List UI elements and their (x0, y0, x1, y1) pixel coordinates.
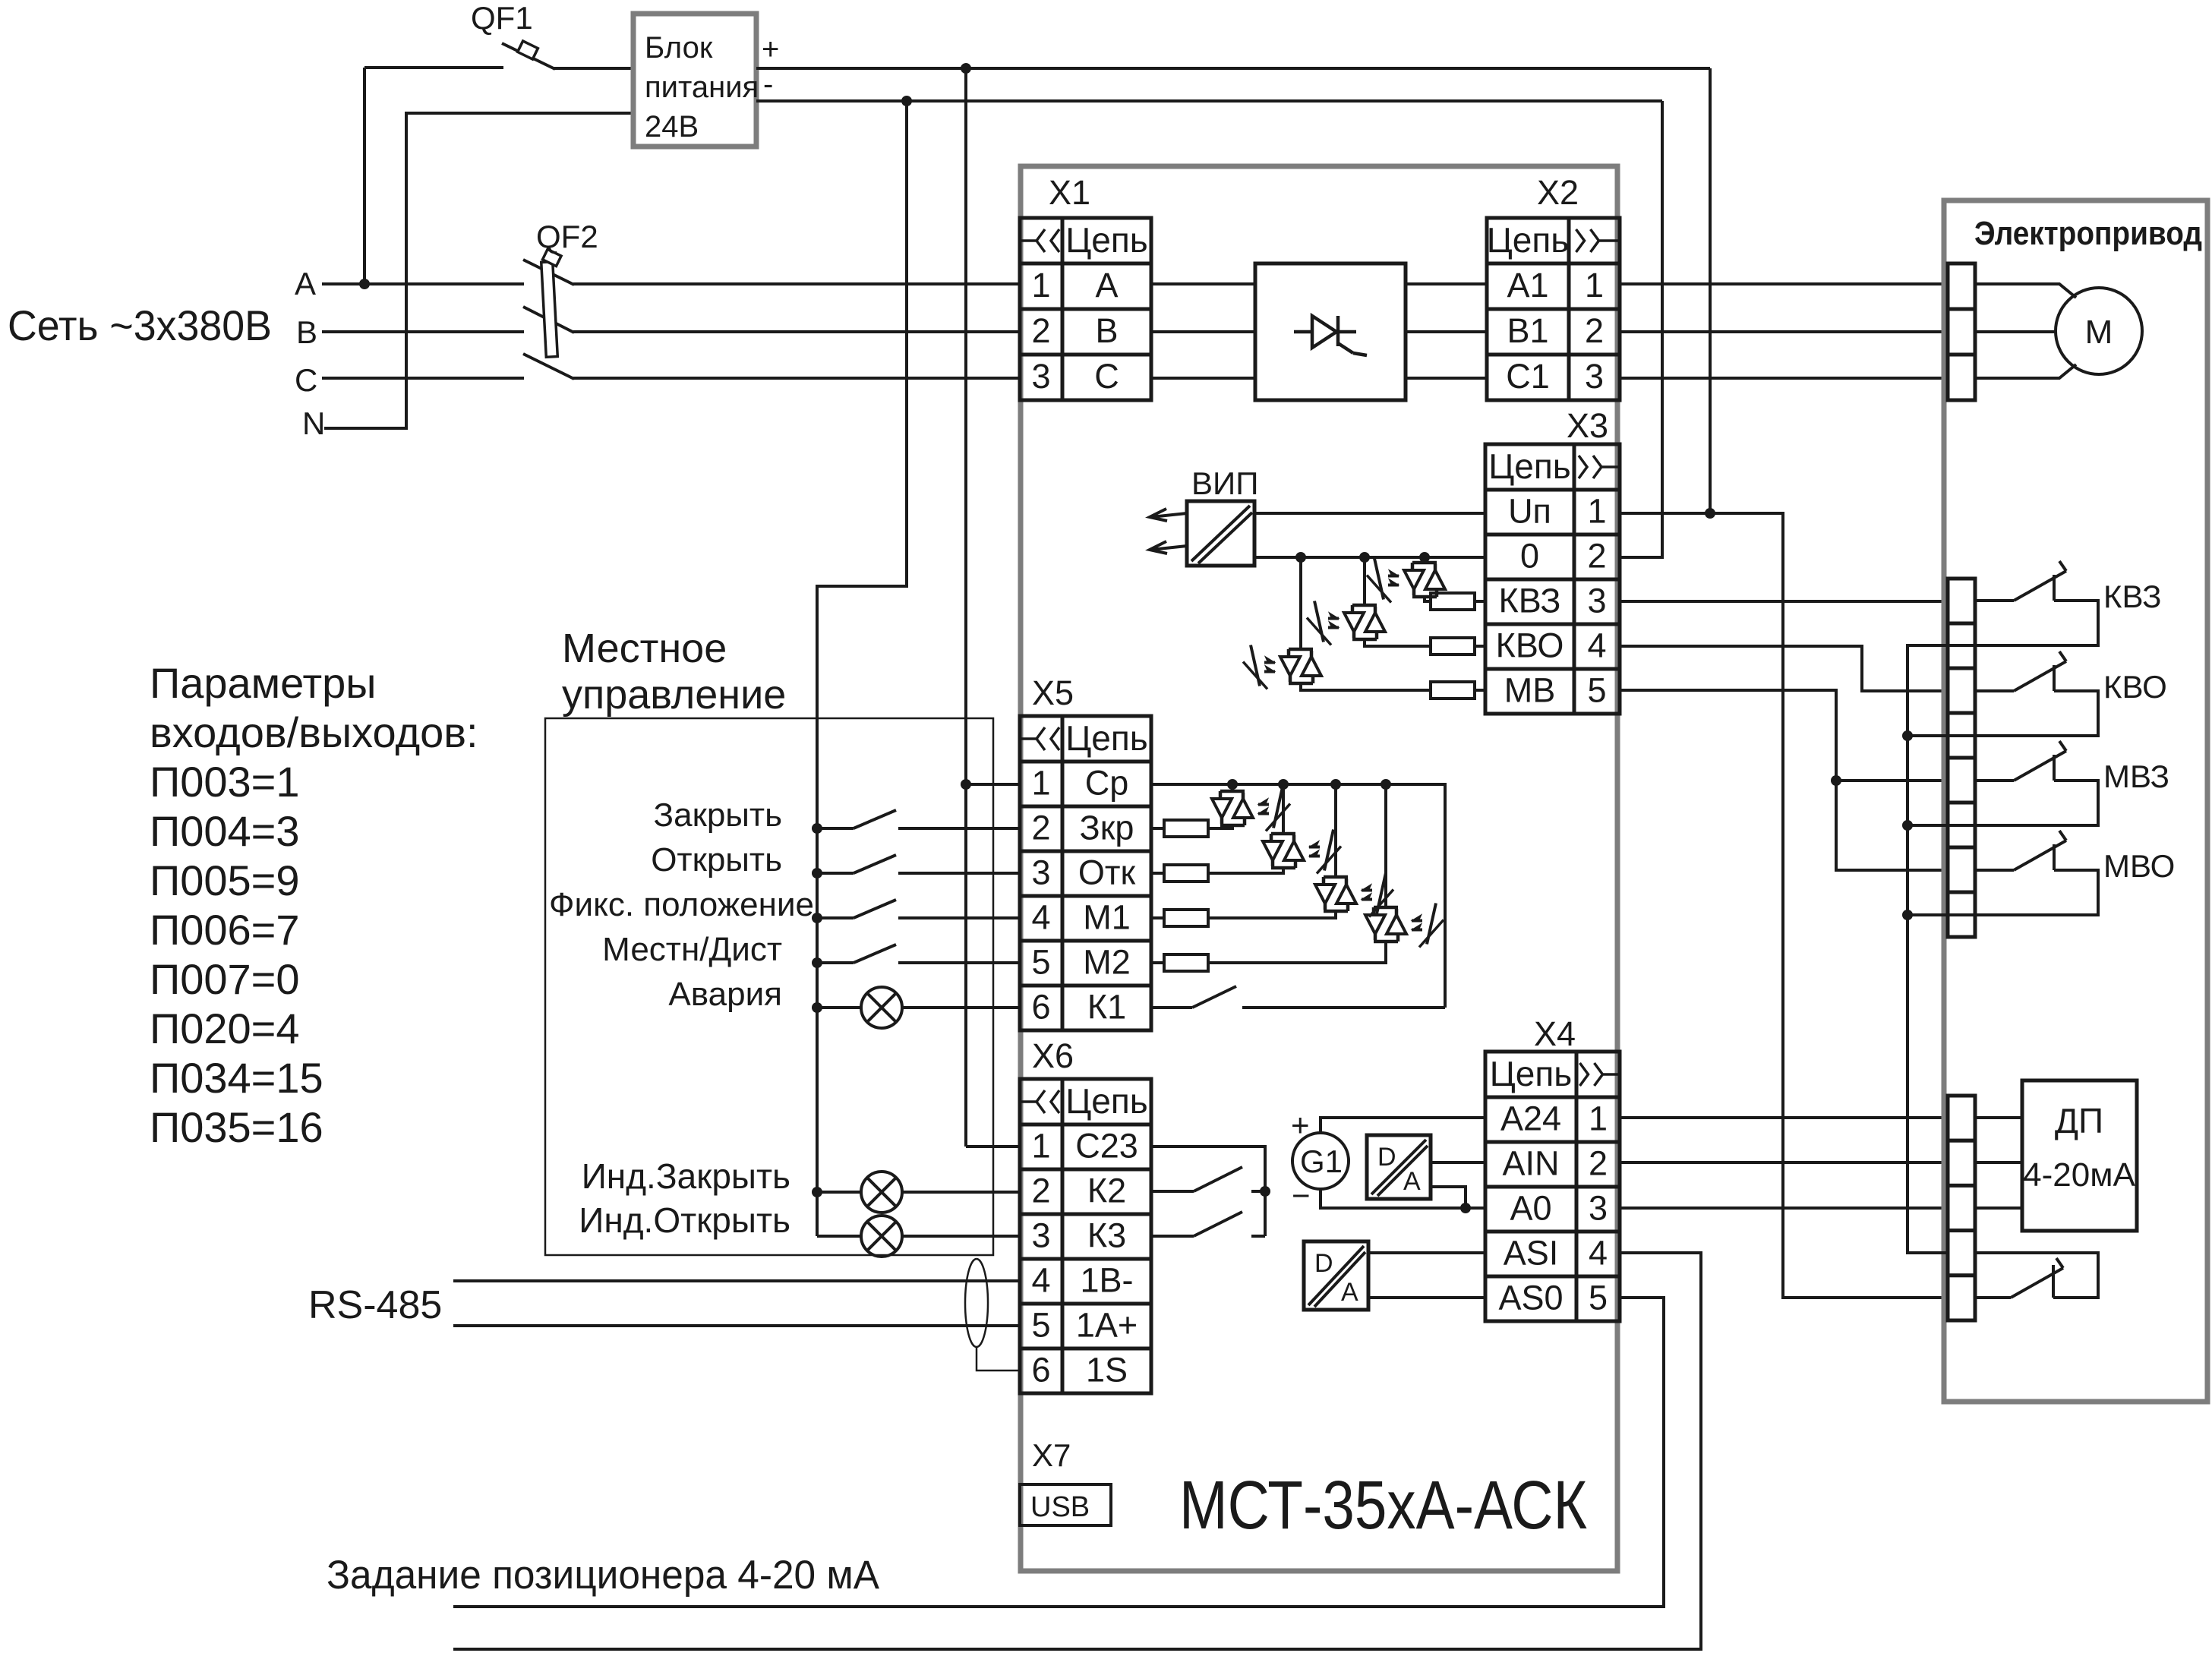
svg-text:24В: 24В (645, 110, 699, 144)
wire AIN to ДП (1620, 1161, 1948, 1164)
junction 0-bus to optotriac МВ (1295, 552, 1306, 563)
terminal ДП3 (1948, 1185, 1975, 1230)
svg-text:Х1: Х1 (1049, 173, 1090, 212)
wire -24 drop to local control bus (817, 101, 907, 1236)
svg-text:D: D (1314, 1249, 1333, 1278)
wire +24 rail drop to Uп (1709, 68, 1712, 513)
wire ДП supply (1975, 1116, 2022, 1119)
svg-text:1: 1 (1031, 1127, 1050, 1166)
svg-text:А0: А0 (1510, 1189, 1551, 1228)
svg-text:4: 4 (1031, 898, 1050, 937)
wire X1.2 to bridge (1151, 330, 1255, 333)
resistor RКВЗ (1431, 593, 1475, 610)
svg-text:Зкр: Зкр (1080, 809, 1134, 847)
wire RКВЗ to X3 (1474, 600, 1485, 603)
terminal B (1948, 309, 1975, 355)
optotriac lead КВЗ (1423, 557, 1426, 564)
breaker QF1 (502, 41, 555, 69)
svg-text:1: 1 (1585, 266, 1604, 304)
svg-text:С1: С1 (1506, 357, 1550, 396)
wire -24 rail (756, 99, 1662, 103)
svg-text:А: А (295, 266, 316, 301)
wire DAC1 to AIN (1431, 1161, 1485, 1164)
wire КВО to actuator (1620, 646, 1948, 691)
wire RКВО to X3 (1474, 645, 1485, 648)
wire bridge to X2.2 (1406, 330, 1487, 333)
svg-text:С23: С23 (1075, 1127, 1138, 1166)
junction on A for QF1 (359, 279, 370, 289)
junction Cp to optotriac x1623 (1227, 779, 1238, 790)
wire RS-485 B to X6.4 (453, 1279, 1020, 1282)
svg-text:Х7: Х7 (1032, 1437, 1071, 1473)
wire +24 rail (756, 67, 1710, 70)
svg-text:Местное: Местное (562, 626, 727, 671)
wire G1 to A24 (1321, 1118, 1485, 1133)
terminal LS6 (1948, 803, 1975, 847)
junction bus Инд.Закрыть (812, 1187, 822, 1197)
svg-text:В: В (296, 314, 317, 350)
svg-text:1: 1 (1031, 764, 1050, 803)
wire ДП return (1975, 1207, 2022, 1210)
svg-text:КВЗ: КВЗ (1499, 582, 1561, 620)
svg-text:N: N (302, 405, 325, 441)
svg-text:питания: питания (645, 71, 759, 104)
handwheel switch blade (1975, 1296, 2011, 1299)
optotriac КВЗ bottom lead (1425, 597, 1431, 601)
svg-text:Х3: Х3 (1567, 406, 1608, 445)
svg-text:Блок: Блок (645, 31, 713, 65)
svg-text:С: С (1094, 357, 1119, 396)
terminal ДП1 (1948, 1096, 1975, 1140)
wire +24 to C23 (966, 1145, 1020, 1148)
wire return МВО (1907, 913, 1975, 916)
svg-text:Цепь: Цепь (1490, 1054, 1573, 1093)
shield ellipse (965, 1259, 988, 1347)
svg-text:Цепь: Цепь (1065, 220, 1148, 260)
wire terminal B to motor (1975, 330, 2056, 333)
svg-text:управление: управление (562, 672, 786, 718)
svg-text:0: 0 (1520, 537, 1539, 576)
limit switch КВЗ (1975, 599, 2014, 602)
thyristor symbol (1294, 330, 1312, 334)
svg-text:AIN: AIN (1502, 1144, 1559, 1183)
svg-text:КВО: КВО (2103, 669, 2167, 705)
wire DAC2 to AS0 (1368, 1296, 1485, 1299)
svg-text:Закрыть: Закрыть (654, 796, 782, 834)
svg-text:USB: USB (1030, 1491, 1090, 1523)
optotriac bottom lead x1759 (1208, 911, 1336, 918)
svg-text:МСТ-35хА-АСК: МСТ-35хА-АСК (1179, 1468, 1587, 1544)
svg-text:К2: К2 (1087, 1172, 1126, 1210)
resistor RКВО (1431, 638, 1475, 655)
wire X2.1 to actuator (1620, 282, 1948, 285)
svg-text:А1: А1 (1507, 266, 1548, 304)
switch Фикс. положение (817, 916, 854, 919)
svg-text:1А+: 1А+ (1076, 1306, 1138, 1345)
optotriac КВО (1363, 605, 1367, 607)
svg-text:3: 3 (1031, 1216, 1050, 1255)
terminal LS5 (1948, 758, 1975, 803)
svg-text:Х6: Х6 (1032, 1036, 1074, 1075)
svg-text:МВЗ: МВЗ (2103, 759, 2169, 794)
wire return КВО (1907, 734, 1975, 737)
wire return bus (1907, 645, 1975, 1253)
junction Cp to optotriac x1690 (1278, 779, 1289, 790)
optotriac U1623 (1231, 791, 1235, 793)
terminal LS7 (1948, 847, 1975, 892)
resistor X5 row y1091 (1151, 827, 1164, 830)
optotriac lead x1759 (1334, 784, 1337, 878)
wire return МВЗ (1907, 824, 1975, 827)
handwheel switch fixed path (1975, 1253, 2098, 1298)
svg-text:М2: М2 (1083, 943, 1131, 982)
svg-text:П006=7: П006=7 (150, 906, 300, 954)
svg-text:Х5: Х5 (1032, 673, 1074, 712)
junction Cp tap (961, 779, 971, 790)
terminal ДП5 (1948, 1276, 1975, 1320)
svg-text:+: + (762, 33, 779, 66)
junction Cp to optotriac x1759 (1330, 779, 1341, 790)
wire Cp bus (1151, 784, 1445, 1008)
svg-text:4: 4 (1587, 626, 1606, 665)
svg-text:Авария: Авария (668, 976, 782, 1013)
svg-text:М: М (2085, 314, 2113, 351)
junction return МВЗ (1902, 820, 1913, 831)
optotriac lead КВО (1363, 557, 1366, 607)
wire QF2-B to X1.2 (573, 330, 1020, 333)
switch Закрыть (817, 827, 854, 830)
svg-text:Х2: Х2 (1537, 173, 1579, 212)
junction return КВО (1902, 730, 1913, 741)
lamp Инд.Закрыть (817, 1191, 861, 1194)
svg-text:К1: К1 (1087, 988, 1126, 1027)
svg-text:1В-: 1В- (1080, 1261, 1133, 1300)
DAC1 box (1367, 1135, 1431, 1199)
svg-text:6: 6 (1031, 988, 1050, 1027)
svg-text:5: 5 (1589, 1279, 1608, 1317)
svg-text:RS-485: RS-485 (308, 1283, 442, 1327)
wire КВЗ to actuator (1620, 600, 1948, 603)
junction bus Местн/Дист (812, 957, 822, 968)
svg-text:QF1: QF1 (471, 0, 533, 36)
resistor RМВ (1431, 682, 1475, 699)
svg-text:Ср: Ср (1085, 764, 1129, 803)
wire QF1 to PSU (554, 67, 631, 70)
svg-text:А24: А24 (1500, 1099, 1561, 1138)
svg-text:Фикс. положение: Фикс. положение (549, 886, 814, 923)
wire N (324, 113, 631, 428)
svg-text:−: − (1292, 1178, 1311, 1213)
wire phase B input (322, 330, 524, 333)
svg-text:1S: 1S (1086, 1351, 1128, 1389)
svg-text:1: 1 (1589, 1099, 1608, 1138)
svg-text:Инд.Закрыть: Инд.Закрыть (582, 1156, 790, 1196)
svg-text:П007=0: П007=0 (150, 955, 300, 1003)
svg-text:A: A (1341, 1278, 1358, 1307)
wire -24 rail drop to X3.2 (1620, 101, 1662, 557)
svg-text:Uп: Uп (1508, 492, 1551, 531)
actuator box Электропривод (1944, 200, 2207, 1402)
optotriac U1825 (1384, 907, 1388, 909)
svg-text:4-20мА: 4-20мА (2023, 1156, 2135, 1194)
svg-text:Цепь: Цепь (1487, 220, 1570, 260)
svg-text:QF2: QF2 (536, 219, 598, 254)
optotriac МВ (1299, 649, 1303, 651)
wire X1.3 to bridge (1151, 377, 1255, 380)
wire Uп to feed drop (1620, 513, 1948, 1298)
optotriac bottom lead x1690 (1208, 868, 1283, 873)
connector X7 USB (1020, 1484, 1111, 1525)
svg-text:ASI: ASI (1504, 1234, 1559, 1273)
wire X2.3 to actuator (1620, 377, 1948, 380)
svg-text:5: 5 (1031, 1306, 1050, 1345)
resistor X5 row y1209 (1151, 916, 1164, 919)
optotriac U1759 (1334, 877, 1338, 878)
junction DAC1 A0 (1460, 1203, 1471, 1213)
wire to QF1 (364, 66, 503, 69)
svg-text:3: 3 (1031, 853, 1050, 892)
wire ВИП to X3.2 zero (1254, 556, 1485, 559)
svg-text:+: + (1291, 1107, 1310, 1143)
optotriac lead МВ (1299, 557, 1302, 651)
svg-text:КВО: КВО (1496, 626, 1564, 665)
wire bridge to X2.1 (1406, 282, 1487, 285)
terminal LS3 (1948, 668, 1975, 713)
svg-text:Сеть ~3х380В: Сеть ~3х380В (8, 301, 272, 349)
svg-text:Местн/Дист: Местн/Дист (602, 931, 782, 968)
junction МВ bus to МВЗ (1831, 775, 1841, 786)
wire AS0 loop (453, 1298, 1664, 1607)
junction 0-bus to optotriac КВО (1359, 552, 1370, 563)
svg-text:М1: М1 (1083, 898, 1131, 937)
terminal ДП2 (1948, 1140, 1975, 1185)
svg-text:AS0: AS0 (1498, 1279, 1563, 1317)
svg-text:МВ: МВ (1504, 671, 1556, 710)
svg-text:A: A (1403, 1167, 1421, 1196)
svg-text:Открыть: Открыть (651, 841, 782, 878)
wire RМВ to X3 (1474, 689, 1485, 692)
svg-text:С: С (295, 362, 317, 398)
svg-text:2: 2 (1031, 311, 1050, 350)
breaker QF2 (523, 260, 574, 285)
svg-text:G1: G1 (1300, 1143, 1343, 1179)
wire ВИП to X3.1 Uп (1254, 512, 1485, 515)
wire Cp to X5.1 (966, 783, 1020, 786)
current source G1 (1292, 1133, 1349, 1189)
junction bus Открыть (812, 868, 822, 878)
junction bus Фикс. положение (812, 913, 822, 923)
switch Местн/Дист (817, 961, 854, 964)
handwheel switch contact (2052, 1265, 2055, 1298)
DAC2 box (1304, 1241, 1368, 1310)
wire G1 to A0 (1321, 1189, 1485, 1208)
wire ДП out (1975, 1161, 2022, 1164)
svg-text:3: 3 (1589, 1189, 1608, 1228)
svg-text:4: 4 (1589, 1234, 1608, 1273)
wire МВ bus tap МВЗ (1836, 779, 1948, 782)
svg-text:5: 5 (1031, 943, 1050, 982)
wire A0 to ДП (1620, 1207, 1948, 1210)
junction +24 on Uп wire (1705, 508, 1715, 519)
motor M (2056, 288, 2142, 374)
wire МВ to actuator bus (1620, 690, 1948, 870)
junction bus Закрыть (812, 823, 822, 834)
svg-text:К3: К3 (1087, 1216, 1126, 1255)
svg-text:ДП: ДП (2055, 1101, 2103, 1140)
junction 0-bus to optotriac КВЗ (1419, 552, 1430, 563)
resistor X5 row y1268 (1151, 961, 1164, 964)
svg-text:П020=4: П020=4 (150, 1005, 300, 1052)
svg-text:П005=9: П005=9 (150, 856, 300, 904)
wire terminal A to motor (1975, 284, 2076, 298)
wire X2.2 to actuator (1620, 330, 1948, 333)
svg-text:Отк: Отк (1078, 853, 1136, 892)
svg-text:Цепь: Цепь (1488, 446, 1571, 486)
svg-text:В: В (1095, 311, 1118, 350)
wire DAC1 to A0 (1431, 1187, 1466, 1208)
svg-text:МВО: МВО (2103, 848, 2175, 884)
svg-text:Параметры: Параметры (150, 659, 377, 707)
position sensor box ДП 4-20мА (2022, 1080, 2137, 1231)
wire QF2-A to X1.1 (573, 282, 1020, 285)
junction return МВО (1902, 910, 1913, 920)
junction +24 drop (961, 63, 971, 74)
svg-text:П004=3: П004=3 (150, 807, 300, 855)
wire +24 drop to Cp/C23 (964, 68, 967, 1147)
svg-text:Электропривод: Электропривод (1974, 215, 2202, 252)
svg-text:входов/выходов:: входов/выходов: (150, 708, 478, 756)
svg-text:3: 3 (1585, 357, 1604, 396)
junction Cp to optotriac x1825 (1381, 779, 1391, 790)
optotriac МВ bottom lead (1301, 683, 1431, 690)
relay contact К1 (1151, 1006, 1192, 1009)
svg-text:2: 2 (1031, 1172, 1050, 1210)
thyristor power module (1255, 263, 1406, 400)
power supply box Блок питания 24В (633, 14, 756, 147)
svg-text:П003=1: П003=1 (150, 758, 300, 806)
svg-text:КВЗ: КВЗ (2103, 579, 2161, 614)
wire X1.1 to bridge (1151, 282, 1255, 285)
terminal LS2 (1948, 623, 1975, 668)
wire phase A input (322, 282, 524, 285)
limit switch МВЗ (1975, 779, 2014, 782)
svg-text:П035=16: П035=16 (150, 1103, 323, 1151)
controller box МСТ-35хА-АСК (1021, 166, 1617, 1571)
svg-text:2: 2 (1585, 311, 1604, 350)
wire C23 ladder (1151, 1147, 1265, 1236)
optotriac КВО bottom lead (1365, 639, 1431, 646)
wire QF1 riser (363, 68, 366, 284)
optotriac bottom lead x1623 (1208, 825, 1232, 828)
optotriac lead x1825 (1384, 784, 1387, 909)
svg-text:D: D (1377, 1143, 1396, 1172)
lamp Авария (817, 1006, 861, 1009)
junction C23 K2 (1260, 1186, 1270, 1197)
svg-text:6: 6 (1031, 1351, 1050, 1389)
svg-text:ВИП: ВИП (1191, 465, 1258, 501)
wire terminal C to motor (1975, 364, 2076, 378)
svg-text:-: - (763, 68, 773, 101)
terminal LS1 (1948, 579, 1975, 623)
svg-text:5: 5 (1587, 671, 1606, 710)
svg-text:3: 3 (1587, 582, 1606, 620)
terminal A (1948, 263, 1975, 309)
limit switch МВО (1975, 869, 2014, 872)
terminal ДП4 (1948, 1231, 1975, 1276)
relay contact К2 (1151, 1190, 1194, 1193)
svg-text:3: 3 (1031, 357, 1050, 396)
wire phase C input (322, 377, 524, 380)
svg-text:1: 1 (1587, 492, 1606, 531)
svg-text:Задание позиционера 4-20 мА: Задание позиционера 4-20 мА (327, 1553, 880, 1598)
junction -24 drop (901, 96, 912, 106)
svg-text:В1: В1 (1507, 311, 1548, 350)
wire A24 to ДП (1620, 1116, 1948, 1119)
ВИП output arrow 2 (1150, 541, 1187, 554)
isolated supply ВИП (1187, 501, 1254, 566)
svg-text:Инд.Открыть: Инд.Открыть (579, 1200, 790, 1240)
junction bus Авария (812, 1002, 822, 1013)
svg-text:4: 4 (1031, 1261, 1050, 1300)
svg-text:Цепь: Цепь (1065, 1081, 1148, 1121)
svg-text:А: А (1095, 266, 1118, 304)
svg-text:Х4: Х4 (1534, 1014, 1576, 1053)
lamp Инд.Открыть (817, 1235, 861, 1238)
wire QF2-C to X1.3 (573, 377, 1020, 380)
switch Открыть (817, 872, 854, 875)
terminal LS4 (1948, 713, 1975, 758)
wire RS-485 A to X6.5 (453, 1324, 1020, 1327)
ВИП output arrow 1 (1150, 509, 1187, 521)
svg-text:Цепь: Цепь (1065, 718, 1148, 758)
optotriac U1690 (1282, 834, 1286, 835)
resistor X5 row y1150 (1151, 872, 1164, 875)
optotriac bottom lead x1825 (1208, 942, 1386, 963)
optotriac lead x1623 (1231, 784, 1234, 793)
terminal C (1948, 355, 1975, 400)
optotriac lead x1690 (1282, 784, 1285, 835)
wire ASI loop (453, 1253, 1701, 1649)
wire shield to X6.6 (977, 1347, 1020, 1371)
terminal LS8 (1948, 892, 1975, 937)
relay contact К3 (1151, 1235, 1194, 1238)
svg-text:2: 2 (1031, 809, 1050, 847)
svg-text:1: 1 (1031, 266, 1050, 304)
svg-text:2: 2 (1589, 1144, 1608, 1183)
limit switch КВО (1975, 689, 2014, 692)
optotriac КВЗ (1423, 563, 1427, 564)
wire DAC2 to ASI (1368, 1251, 1485, 1254)
local control box (545, 718, 993, 1255)
svg-text:2: 2 (1587, 537, 1606, 576)
wire bridge to X2.3 (1406, 377, 1487, 380)
svg-text:П034=15: П034=15 (150, 1054, 323, 1102)
